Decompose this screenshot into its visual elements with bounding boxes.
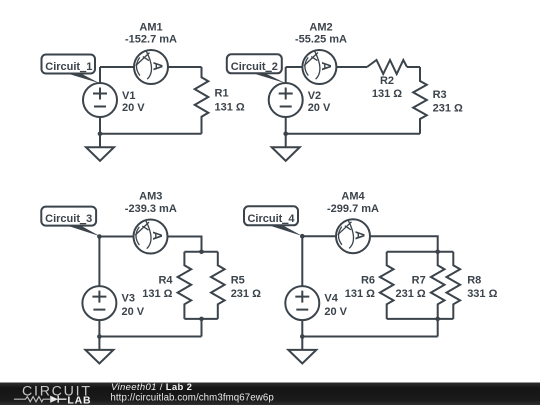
node bottom c4 (300, 334, 305, 339)
svg-text:V2: V2 (308, 90, 321, 102)
svg-text:20 V: 20 V (122, 306, 145, 318)
resistor R7 (431, 252, 445, 319)
svg-text:331 Ω: 331 Ω (467, 288, 497, 300)
svg-text:131 Ω: 131 Ω (142, 288, 172, 300)
resistor R2 (367, 60, 407, 74)
wire top right c4 (370, 236, 438, 252)
svg-text:V3: V3 (122, 293, 135, 305)
voltage source V2 (269, 83, 303, 117)
wire left rail c2 (285, 67, 287, 83)
svg-text:AM2: AM2 (309, 22, 332, 34)
wire top right c3 (168, 237, 202, 252)
net flag Circuit_2 (227, 54, 286, 83)
ammeter AM2 (302, 50, 336, 84)
wire V2 to node c2 (285, 117, 287, 134)
wire left rail c1 (99, 67, 101, 83)
resistor R6 (380, 252, 394, 319)
svg-text:20 V: 20 V (308, 102, 331, 114)
logo schematic squiggle (14, 396, 67, 403)
wire bank top bar c3 (184, 251, 217, 253)
ammeter AM1 (134, 50, 168, 84)
svg-text:-55.25 mA: -55.25 mA (295, 33, 347, 45)
ground c1 (86, 134, 114, 161)
svg-text:R4: R4 (158, 275, 173, 287)
svg-text:V1: V1 (122, 90, 135, 102)
svg-text:R6: R6 (361, 275, 375, 287)
wire am to R2 c2 (336, 66, 367, 68)
svg-text:AM1: AM1 (139, 22, 162, 34)
node bank bottom c4 (435, 317, 440, 322)
resistor R5 (211, 252, 225, 319)
wire left rail c4 (301, 236, 303, 286)
wire bottom c1 (100, 133, 202, 135)
resistor R3 (413, 67, 427, 134)
ammeter AM3 (134, 220, 168, 254)
voltage source V1 (83, 83, 117, 117)
wire V4 to node c4 (301, 320, 303, 336)
wire top left c2 (286, 66, 303, 68)
node bank bottom c3 (199, 317, 204, 322)
ground c4 (288, 337, 316, 364)
node bottom c1 (98, 132, 103, 137)
wire top left c3 (99, 236, 133, 238)
svg-text:231 Ω: 231 Ω (433, 103, 463, 115)
wire top right c1 (168, 66, 202, 68)
resistor R1 (195, 67, 209, 134)
svg-text:LAB: LAB (67, 395, 91, 405)
svg-text:R3: R3 (433, 89, 447, 101)
node top c4 (300, 234, 305, 239)
svg-text:231 Ω: 231 Ω (231, 288, 261, 300)
node bank top c3 (199, 250, 204, 255)
wire top left c4 (302, 235, 336, 237)
net flag Circuit_4 (244, 206, 302, 236)
svg-text:R8: R8 (467, 275, 481, 287)
svg-text:R1: R1 (215, 88, 229, 100)
wire bank top bar c4 (387, 251, 454, 253)
node top c3 (97, 234, 102, 239)
ground c3 (85, 337, 113, 364)
svg-text:AM3: AM3 (139, 190, 162, 202)
wire left rail c3 (98, 237, 100, 287)
svg-text:20 V: 20 V (324, 306, 347, 318)
ammeter AM4 (336, 219, 370, 253)
svg-text:-239.3 mA: -239.3 mA (125, 203, 177, 215)
svg-text:AM4: AM4 (341, 190, 365, 202)
net flag Circuit_3 (41, 207, 100, 237)
wire bottom c4 (302, 336, 437, 338)
svg-text:R5: R5 (231, 275, 245, 287)
svg-text:231 Ω: 231 Ω (395, 288, 425, 300)
node bank top c4 (435, 250, 440, 255)
wire bank bottom bar c3 (184, 318, 217, 320)
svg-text:Vineeth01 / Lab 2: Vineeth01 / Lab 2 (111, 382, 192, 393)
svg-text:R2: R2 (380, 75, 394, 87)
wire bank to bottom c4 (437, 319, 439, 337)
svg-text:20 V: 20 V (122, 102, 145, 114)
wire top left c1 (100, 66, 134, 68)
node bottom c2 (283, 132, 288, 137)
wire R2 to corner c2 (407, 66, 420, 68)
resistor R4 (178, 252, 192, 319)
ground c2 (272, 134, 300, 161)
logo diode (50, 396, 58, 403)
svg-text:131 Ω: 131 Ω (372, 88, 402, 100)
wire bank bottom bar c4 (387, 318, 454, 320)
svg-text:131 Ω: 131 Ω (345, 288, 375, 300)
voltage source V3 (82, 286, 116, 320)
node bottom c3 (97, 334, 102, 339)
resistor R8 (446, 252, 460, 319)
svg-text:-299.7 mA: -299.7 mA (327, 203, 379, 215)
svg-text:V4: V4 (324, 293, 338, 305)
wire bank to bottom c3 (201, 319, 203, 337)
svg-text:R7: R7 (412, 275, 426, 287)
wire bottom c2 (286, 133, 420, 135)
wire bottom c3 (99, 336, 201, 338)
wire V3 to node c3 (98, 320, 100, 336)
wire V1 to node c1 (99, 117, 101, 134)
svg-text:131 Ω: 131 Ω (215, 101, 245, 113)
net flag Circuit_1 (42, 55, 100, 84)
svg-text:http://circuitlab.com/chm3fmq6: http://circuitlab.com/chm3fmq67ew6p (110, 392, 273, 403)
voltage source V4 (285, 286, 319, 320)
svg-text:-152.7 mA: -152.7 mA (125, 33, 177, 45)
